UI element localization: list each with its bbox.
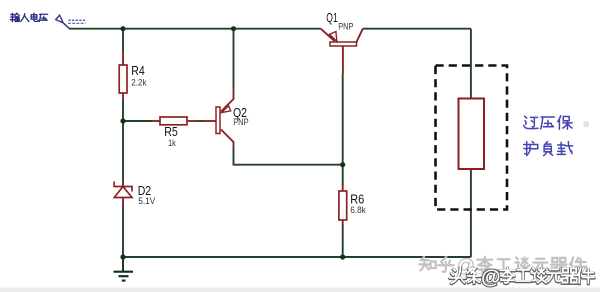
wire: input diagonal from port to top rail [63, 23, 69, 29]
resistor R5 [152, 117, 199, 125]
label 输入电压 (input voltage) [10, 13, 47, 22]
load resistor body [459, 99, 485, 170]
resistor R6 [339, 186, 347, 225]
svg-text:1k: 1k [168, 138, 176, 148]
faint watermark artifact [584, 122, 590, 128]
watermark 头条 @李工谈元器件 dark outline pass [450, 268, 594, 284]
node B junction Q1 base/Q2 collector/R6 [340, 162, 345, 167]
input port symbol [56, 15, 63, 23]
Q1 collector lead [357, 29, 363, 42]
Q1 base pin [342, 46, 344, 74]
label 过压保护负载 (overvoltage protected load) [524, 116, 573, 156]
wire: node B to R6 [342, 165, 344, 186]
wire: Q2 collector down and right to node B [234, 147, 343, 165]
svg-text:2.2k: 2.2k [131, 78, 147, 88]
ground [114, 257, 134, 281]
junction top rail / Q2 emitter [231, 26, 236, 31]
resistor R4 [119, 52, 127, 100]
svg-text:6.8k: 6.8k [350, 205, 366, 215]
Q2 emitter arrow [221, 106, 230, 113]
watermark 知乎 @李工谈元器件 [419, 257, 586, 272]
transistor Q2 [204, 88, 234, 147]
Q2 base bar [216, 107, 220, 134]
node A junction R4/R5/D2 [120, 118, 125, 123]
junction ground rail / R6 [340, 254, 345, 259]
Q2 base pin [204, 120, 216, 122]
svg-text:R5: R5 [164, 124, 178, 139]
D2 cathode zener bar [114, 182, 132, 192]
net name underline [68, 22, 86, 24]
wire: top rail right (Q1 collector to load corner) [363, 28, 471, 30]
Q1 base bar [330, 42, 357, 46]
wire: Q2 emitter branch from top rail [233, 29, 235, 88]
Q1 emitter lead [321, 29, 335, 41]
wire: R4 branch vertical top [122, 29, 124, 52]
svg-text:R4: R4 [131, 63, 145, 78]
wire: load bottom vertical to ground rail [470, 169, 472, 257]
wire: R6 to bottom rail [342, 225, 344, 257]
wire: node A to R5 [123, 120, 152, 122]
svg-text:R6: R6 [350, 191, 364, 206]
wire: R5 to Q2 base [199, 120, 205, 122]
wire: node A down to D2 [122, 121, 124, 182]
svg-text:@: @ [481, 267, 501, 289]
Q2 collector lead [221, 130, 234, 148]
junction top rail / R4 [120, 26, 125, 31]
zener diode D2 [114, 182, 132, 207]
junction ground rail / D2 [120, 254, 125, 259]
wire: load right vertical drop [470, 29, 472, 99]
transistor Q1 [321, 29, 363, 74]
Q1 emitter arrow [330, 32, 337, 42]
svg-text:Q1: Q1 [326, 10, 337, 25]
wire: D2 to ground rail [122, 206, 124, 257]
wire: R4 to node A [122, 100, 124, 121]
svg-text:PNP: PNP [338, 22, 353, 32]
svg-text:PNP: PNP [233, 117, 248, 127]
net name dots [69, 20, 86, 21]
svg-text:5.1V: 5.1V [138, 196, 155, 206]
Q2 emitter lead [221, 88, 234, 112]
watermark 头条 @李工谈元器件 white pass [450, 267, 594, 283]
wire: Q1 base down to node B [342, 74, 344, 165]
wire: bottom ground rail [123, 256, 471, 258]
wire: top rail left (input to Q1 emitter) [69, 28, 321, 30]
load dashed box [436, 66, 508, 210]
bottom gray strip [0, 288, 600, 292]
D2 anode triangle [114, 187, 132, 198]
